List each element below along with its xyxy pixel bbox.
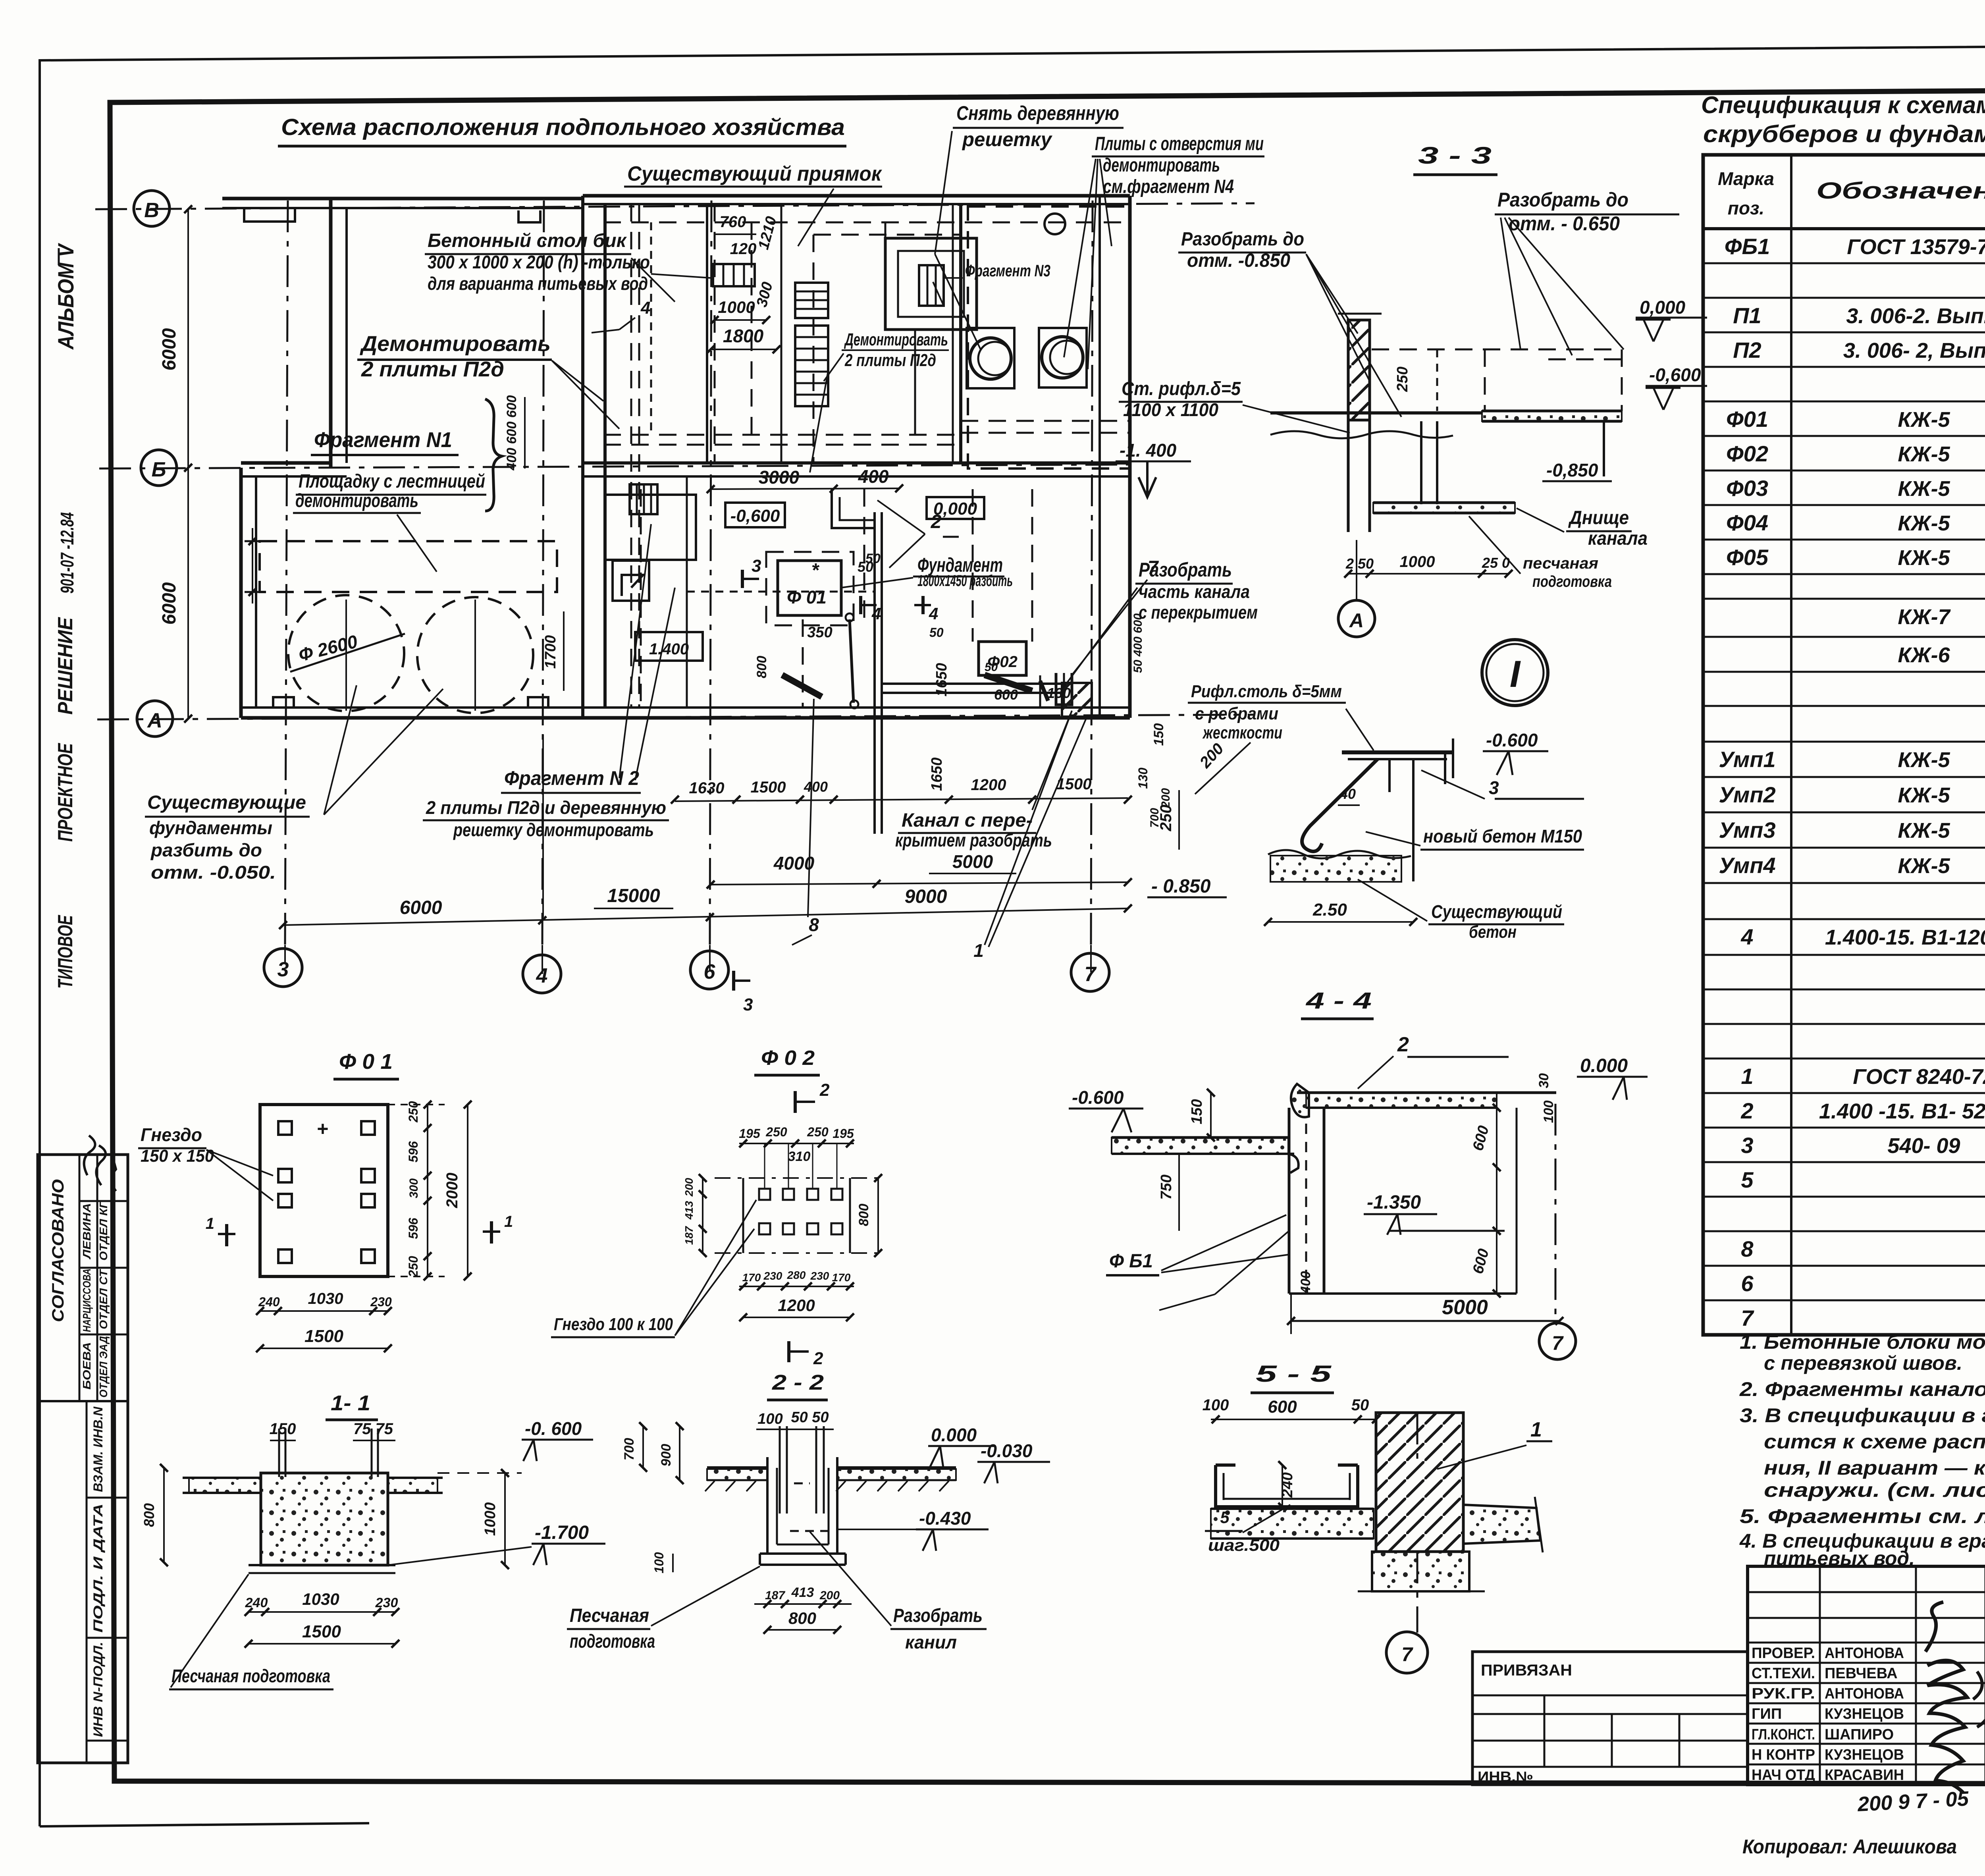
svg-text:решетку: решетку	[962, 128, 1052, 150]
dim chain 1630 1500 400 1200 1500	[675, 798, 1128, 801]
svg-text:2: 2	[819, 1080, 830, 1100]
svg-text:280: 280	[787, 1269, 806, 1281]
stair ladder приямок lower	[795, 326, 828, 406]
svg-text:800: 800	[141, 1503, 157, 1527]
detail Ф02 section mark 2 bottom	[787, 1341, 790, 1362]
svg-text:240: 240	[258, 1295, 280, 1309]
svg-text:-1.700: -1.700	[535, 1522, 589, 1543]
svg-text:демонтировать: демонтировать	[1103, 155, 1220, 176]
detail Ф02 dim 1200	[743, 1317, 850, 1318]
section 3-3 floor line left	[1270, 411, 1482, 415]
svg-text:6: 6	[704, 960, 716, 983]
svg-text:1- 1: 1- 1	[331, 1391, 370, 1415]
svg-text:350: 350	[807, 624, 832, 641]
svg-text:-0,850: -0,850	[1546, 460, 1598, 480]
svg-text:1030: 1030	[308, 1290, 343, 1307]
svg-text:канил: канил	[905, 1632, 957, 1652]
svg-text:П2: П2	[1733, 337, 1761, 362]
svg-text:187: 187	[683, 1226, 695, 1245]
svg-text:2.50: 2.50	[1312, 900, 1347, 920]
spec table outer grid	[1703, 155, 1985, 1335]
section 3-3 hatched pier	[1348, 320, 1370, 420]
dim Ф2600 diagonal	[290, 634, 405, 672]
svg-text:150: 150	[270, 1420, 296, 1438]
svg-text:Бетонный стол бик: Бетонный стол бик	[428, 230, 627, 251]
svg-text:4: 4	[536, 964, 548, 987]
svg-text:4: 4	[929, 604, 938, 623]
detail Ф02 top dims 195 250 250 195	[739, 1143, 854, 1144]
svg-text:413: 413	[791, 1585, 814, 1600]
фундамент Ф01 plan box	[778, 561, 841, 615]
svg-text:сится к схеме расположения: сится к схеме расположения скрубберов вн…	[1764, 1431, 1985, 1453]
svg-text:Б: Б	[152, 458, 166, 481]
svg-text:2 - 2: 2 - 2	[772, 1371, 824, 1394]
svg-text:195: 195	[739, 1126, 761, 1141]
svg-text:-0. 600: -0. 600	[525, 1418, 582, 1439]
svg-text:Днище: Днище	[1568, 507, 1629, 528]
svg-text:1: 1	[1741, 1064, 1753, 1089]
svg-text:Песчаная: Песчаная	[570, 1605, 649, 1626]
svg-text:230: 230	[810, 1270, 829, 1282]
title block signatures scribble	[1925, 1602, 1967, 1793]
section 3-3 canal walls	[1420, 421, 1422, 504]
detail I new concrete boundary	[1268, 850, 1411, 858]
svg-text:1650: 1650	[929, 758, 945, 791]
svg-text:50: 50	[929, 625, 944, 640]
svg-text:3: 3	[1489, 777, 1499, 798]
svg-text:100: 100	[652, 1552, 666, 1573]
section 3-3 bottom dims 250 1000 250	[1348, 573, 1509, 575]
svg-text:700: 700	[622, 1438, 637, 1461]
svg-text:Канал с пере-: Канал с пере-	[902, 810, 1033, 831]
pipe riser symbol near Ф01	[850, 619, 854, 703]
svg-text:-0.600: -0.600	[1072, 1087, 1124, 1108]
svg-text:Демонтировать: Демонтировать	[844, 330, 948, 349]
svg-text:Гнездо 100 к 100: Гнездо 100 к 100	[554, 1315, 673, 1334]
section 5-5 axis to bubble 7	[1416, 1552, 1418, 1633]
svg-text:3. 006-2. Вып.II: 3. 006-2. Вып.II	[1846, 304, 1985, 328]
drain circle приямок	[1045, 214, 1065, 234]
svg-text:Снять деревянную: Снять деревянную	[956, 102, 1119, 124]
section mark 3 lower	[732, 971, 735, 991]
svg-text:1.400-15. В1-120-24: 1.400-15. В1-120-24	[1825, 925, 1985, 949]
svg-text:КЖ-5: КЖ-5	[1898, 819, 1950, 843]
section 1-1 right floor slab	[388, 1478, 437, 1493]
partition x2050 приямок dashed	[813, 235, 815, 463]
svg-text:Н КОНТР: Н КОНТР	[1752, 1747, 1815, 1763]
svg-text:Копировал: Алешикова: Копировал: Алешикова	[1742, 1836, 1957, 1858]
svg-text:1000: 1000	[1400, 553, 1435, 571]
svg-text:КЖ-5: КЖ-5	[1898, 477, 1950, 501]
axis line В	[95, 203, 1255, 209]
svg-text:КЖ-5: КЖ-5	[1898, 783, 1950, 807]
svg-text:4: 4	[1740, 924, 1753, 949]
svg-text:100: 100	[1203, 1396, 1229, 1414]
svg-text:1500: 1500	[751, 779, 786, 796]
svg-text:4: 4	[871, 604, 881, 623]
svg-text:БОЕВА: БОЕВА	[81, 1342, 93, 1390]
svg-text:-0.430: -0.430	[919, 1508, 971, 1529]
svg-text:150: 150	[1151, 723, 1166, 746]
thick pipe stub 8	[782, 675, 822, 697]
svg-text:АЛЬБОМ V: АЛЬБОМ V	[53, 243, 78, 350]
svg-text:0,000: 0,000	[1640, 297, 1686, 318]
svg-text:6000: 6000	[159, 328, 180, 370]
svg-text:130: 130	[1136, 767, 1150, 789]
svg-text:Плиты с отверстия ми: Плиты с отверстия ми	[1095, 133, 1264, 154]
ladder grate mid room x1586	[630, 484, 657, 514]
svg-text:-1.350: -1.350	[1367, 1192, 1421, 1213]
svg-text:5000: 5000	[952, 851, 993, 872]
section 4-4 left lip blob	[1291, 1084, 1309, 1117]
svg-text:8: 8	[1741, 1236, 1754, 1261]
svg-text:+: +	[316, 1118, 328, 1140]
svg-text:200: 200	[819, 1589, 840, 1602]
svg-text:7: 7	[1085, 963, 1097, 986]
svg-text:5: 5	[1220, 1508, 1230, 1527]
curly brace фрагмент N1	[485, 399, 502, 511]
detail Ф01 right dim chain	[427, 1105, 428, 1276]
svg-text:Обозначение: Обозначение	[1816, 178, 1985, 204]
svg-text:РЕШЕНИЕ: РЕШЕНИЕ	[54, 617, 77, 715]
svg-text:2 50: 2 50	[1345, 555, 1374, 572]
svg-text:фундаменты: фундаменты	[149, 817, 272, 838]
svg-text:подготовка: подготовка	[1532, 573, 1612, 590]
axis bubble 4	[523, 955, 561, 993]
svg-text:*: *	[811, 560, 820, 581]
section 2-2 ground hatching	[705, 1481, 715, 1491]
svg-text:1630: 1630	[689, 779, 725, 797]
svg-text:200: 200	[683, 1178, 695, 1197]
svg-text:1: 1	[973, 940, 984, 961]
svg-text:см.фрагмент N4: см.фрагмент N4	[1103, 176, 1234, 197]
axis line 6	[710, 201, 711, 945]
svg-text:600: 600	[994, 686, 1018, 703]
svg-text:2: 2	[1397, 1033, 1409, 1056]
dashed verticals near Ф02	[802, 619, 804, 707]
svg-text:187: 187	[765, 1589, 785, 1602]
svg-text:400: 400	[804, 779, 828, 795]
detail Ф01 section marks 1-1	[225, 1224, 228, 1246]
section 2-2 trench bottom slab	[760, 1552, 846, 1555]
svg-text:1000: 1000	[482, 1502, 499, 1536]
svg-text:7: 7	[1741, 1305, 1754, 1330]
svg-text:-0,600: -0,600	[730, 506, 780, 526]
svg-text:800: 800	[754, 656, 769, 679]
title block staff table	[1748, 1566, 1985, 1785]
building left wall upper	[329, 199, 333, 468]
svg-text:Ф Б1: Ф Б1	[1109, 1251, 1153, 1272]
svg-text:ПРОЕКТНОЕ: ПРОЕКТНОЕ	[54, 743, 77, 842]
svg-text:ФБ1: ФБ1	[1725, 234, 1770, 259]
detail Ф01 dim 1500	[260, 1348, 388, 1349]
svg-text:Умп1: Умп1	[1719, 747, 1775, 772]
svg-text:6000: 6000	[159, 582, 180, 625]
section 5-5 footing speckled	[1372, 1552, 1469, 1591]
detail Ф02 section mark 2 top	[794, 1091, 797, 1113]
svg-text:Существующий приямок: Существующий приямок	[627, 162, 883, 185]
svg-text:240: 240	[245, 1595, 268, 1610]
existing tank dashed circle 1	[288, 595, 404, 711]
section 2-2 dim 800	[767, 1629, 837, 1631]
axis bubble 7	[1071, 953, 1109, 991]
svg-text:с ребрами: с ребрами	[1195, 704, 1278, 723]
svg-text:КЖ-7: КЖ-7	[1898, 605, 1951, 629]
svg-text:Ф04: Ф04	[1726, 510, 1768, 535]
svg-text:250: 250	[406, 1256, 420, 1278]
svg-text:П1: П1	[1733, 303, 1761, 328]
svg-text:300: 300	[407, 1178, 420, 1198]
partition x1781 приямок	[706, 204, 708, 463]
svg-text:КЖ-5: КЖ-5	[1898, 546, 1950, 570]
section 1-1 left floor slab	[189, 1478, 261, 1493]
building bottom wall А	[241, 706, 1130, 709]
svg-text:В: В	[144, 199, 159, 222]
svg-text:50: 50	[865, 551, 881, 566]
svg-text:6: 6	[1741, 1271, 1754, 1296]
detail Ф01 bottom dims 240 1030 230	[260, 1310, 388, 1312]
svg-text:413: 413	[683, 1201, 695, 1220]
svg-text:1: 1	[206, 1215, 214, 1232]
svg-text:1000: 1000	[718, 298, 755, 316]
svg-text:1.400 -15. В1- 520-03: 1.400 -15. В1- 520-03	[1819, 1099, 1985, 1123]
hatched square bottom right of plan	[1062, 683, 1092, 717]
svg-text:ШАПИРО: ШАПИРО	[1825, 1726, 1894, 1743]
svg-text:Ф 01: Ф 01	[787, 587, 827, 607]
svg-text:-0.030: -0.030	[981, 1440, 1033, 1461]
svg-text:разбить до: разбить до	[150, 840, 262, 860]
svg-text:КЖ-5: КЖ-5	[1898, 748, 1950, 772]
room below Б: -0.600 floor box label	[725, 503, 785, 527]
svg-text:КЖ-5: КЖ-5	[1898, 442, 1950, 466]
svg-text:2. Фрагменты каналов и их: 2. Фрагменты каналов и их перекрытий см.…	[1739, 1378, 1985, 1400]
svg-text:скрубберов и фундаментов под: скрубберов и фундаментов под оборудовани…	[1703, 121, 1985, 147]
svg-text:Ф02: Ф02	[1726, 441, 1768, 466]
section 3-3 ground wavy line	[1270, 431, 1453, 438]
section 1-1 dim 800 rotated	[163, 1468, 165, 1562]
svg-text:3000: 3000	[759, 467, 800, 488]
svg-text:ГОСТ 8240-72: ГОСТ 8240-72	[1853, 1065, 1985, 1089]
svg-text:ГОСТ 13579-78: ГОСТ 13579-78	[1847, 235, 1985, 259]
axis line 7	[1091, 201, 1093, 945]
svg-text:9000: 9000	[905, 886, 947, 907]
building left wall lower	[239, 468, 243, 718]
svg-text:Разобрать до: Разобрать до	[1497, 189, 1628, 211]
бетонный столбик bars block	[713, 264, 755, 286]
svg-text:760: 760	[720, 213, 746, 231]
svg-text:310: 310	[788, 1149, 811, 1164]
svg-text:50: 50	[985, 661, 998, 674]
section 4-4 leader to fragment	[1215, 1231, 1289, 1294]
section 5-5 hatched wall	[1376, 1413, 1463, 1552]
section 4-4 right dim chain 600 600	[1496, 1108, 1497, 1294]
svg-text:1200: 1200	[971, 776, 1006, 794]
svg-text:А: А	[146, 709, 162, 732]
svg-text:Разобрать: Разобрать	[1139, 559, 1232, 581]
svg-text:1650: 1650	[933, 663, 950, 697]
svg-text:130: 130	[1047, 685, 1071, 701]
svg-text:400 600 600: 400 600 600	[504, 395, 519, 470]
svg-text:КУЗНЕЦОВ: КУЗНЕЦОВ	[1825, 1706, 1904, 1722]
svg-text:КЖ-5: КЖ-5	[1898, 854, 1950, 878]
detail I circle	[1482, 640, 1548, 706]
svg-text:ИНВ.№: ИНВ.№	[1478, 1768, 1533, 1785]
section 3-3 dashed slab outline	[1372, 349, 1622, 351]
section 3-3 slab with speckles	[1482, 411, 1622, 421]
svg-text:3. В спецификации в графе: 3. В спецификации в графе „Количество.” …	[1740, 1404, 1985, 1427]
фундамент Ф02 plan box	[979, 642, 1026, 675]
stair ladder приямок upper	[795, 283, 828, 318]
svg-text:100: 100	[757, 1411, 782, 1427]
building right wall	[1098, 196, 1101, 718]
svg-text:1200: 1200	[778, 1296, 815, 1315]
svg-text:400: 400	[858, 466, 889, 487]
left stamp signatures	[84, 1136, 95, 1175]
dashed lines inside приямок	[603, 222, 1130, 224]
svg-text:Умп4: Умп4	[1719, 853, 1775, 878]
svg-text:596: 596	[406, 1218, 420, 1239]
dim chain 4000 5000	[711, 882, 1128, 885]
svg-text:КУЗНЕЦОВ: КУЗНЕЦОВ	[1825, 1747, 1904, 1763]
thick pipe stub near Ф02	[985, 675, 1032, 691]
svg-text:снаружи. (см. лист К Ж -4.): снаружи. (см. лист К Ж -4.)	[1764, 1479, 1985, 1501]
svg-text:100: 100	[1541, 1101, 1556, 1123]
svg-text:1: 1	[504, 1213, 513, 1230]
svg-text:75 75: 75 75	[353, 1420, 393, 1438]
interior wall on axis Б right half	[583, 461, 1130, 465]
building top wall left part	[222, 197, 583, 201]
section mark 3 upper	[741, 570, 744, 588]
svg-text:Схема расположения подпольного: Схема расположения подпольного хозяйства	[281, 114, 845, 140]
svg-text:3 - 3: 3 - 3	[1418, 142, 1492, 169]
section 1-1 pit concrete speckled	[261, 1473, 388, 1565]
svg-text:540- 09: 540- 09	[1887, 1134, 1960, 1158]
svg-text:195: 195	[833, 1126, 854, 1141]
interior wall vertical x1468	[581, 196, 584, 718]
svg-text:демонтировать: демонтировать	[295, 490, 418, 511]
svg-text:1030: 1030	[302, 1590, 339, 1608]
svg-text:ЛЕВИНА: ЛЕВИНА	[81, 1203, 93, 1259]
svg-text:Разобрать до: Разобрать до	[1181, 229, 1304, 250]
svg-text:Разобрать: Разобрать	[893, 1605, 983, 1626]
section 5-5 channel profile	[1216, 1463, 1235, 1467]
svg-text:Фрагмент N 2: Фрагмент N 2	[504, 767, 639, 789]
axis bubble А	[137, 701, 173, 737]
svg-text:Ф 0 2: Ф 0 2	[761, 1047, 815, 1070]
room below Б: 0.000 floor box label	[927, 497, 984, 519]
axis bubble 6	[690, 951, 728, 989]
interior wall room divider x2420	[959, 204, 962, 463]
pipe fitting symbol right	[1056, 673, 1072, 705]
section 4-4 wall verticals	[1288, 1108, 1291, 1294]
svg-text:решетку демонтировать: решетку демонтировать	[453, 819, 654, 840]
section 2-2 dims left rotated 700 900 100	[642, 1426, 644, 1468]
svg-text:1800: 1800	[723, 326, 764, 346]
svg-text:новый бетон М150: новый бетон М150	[1423, 826, 1582, 846]
svg-text:ГЛ.КОНСТ.: ГЛ.КОНСТ.	[1752, 1726, 1815, 1743]
svg-text:с перевязкой швов.: с перевязкой швов.	[1764, 1352, 1962, 1374]
axis line 3	[285, 201, 288, 945]
section 2-2 rebar pairs	[779, 1426, 781, 1514]
площадка dim ticks	[245, 540, 260, 542]
svg-text:Фрагмент N3: Фрагмент N3	[965, 261, 1050, 280]
svg-text:8: 8	[809, 914, 819, 935]
bent plate symbol in room below Б	[605, 495, 696, 560]
detail Ф01 dim 2000	[467, 1105, 468, 1276]
svg-text:Существующие: Существующие	[147, 792, 306, 813]
svg-text:230: 230	[763, 1270, 782, 1282]
svg-text:ВЗАМ. ИНВ.N: ВЗАМ. ИНВ.N	[91, 1406, 105, 1492]
svg-text:Ф05: Ф05	[1726, 545, 1769, 570]
svg-text:170: 170	[742, 1271, 761, 1284]
svg-text:РУК.ГР.: РУК.ГР.	[1752, 1685, 1815, 1702]
existing tank dashed circle 2	[417, 597, 533, 713]
svg-text:КРАСАВИН: КРАСАВИН	[1825, 1767, 1904, 1783]
svg-text:600: 600	[1268, 1397, 1297, 1417]
axis line 4	[542, 201, 544, 945]
svg-text:Песчаная подготовка: Песчаная подготовка	[172, 1666, 330, 1686]
square pit in приямок (снять решетку)	[885, 238, 977, 330]
detail Ф02 socket squares	[759, 1189, 770, 1200]
svg-text:КЖ-6: КЖ-6	[1898, 643, 1950, 667]
section 1-1 dim 1500	[249, 1643, 395, 1645]
axis bubble 3	[264, 949, 302, 987]
canal step near 0.000	[832, 489, 875, 528]
step wall on axis Б left	[241, 461, 331, 465]
svg-text:1500: 1500	[304, 1327, 343, 1346]
svg-text:0.000: 0.000	[931, 1425, 977, 1445]
svg-text:Гнездо: Гнездо	[141, 1124, 202, 1145]
vertical dim line left 6000+6000	[187, 209, 189, 719]
svg-text:шаг.500: шаг.500	[1208, 1536, 1280, 1554]
bottom dim chain 6000 15000 9000	[283, 908, 1128, 925]
svg-text:ТИПОВОЕ: ТИПОВОЕ	[54, 915, 77, 989]
section 1-1 rebar stubs	[278, 1429, 280, 1477]
svg-text:5 - 5: 5 - 5	[1256, 1361, 1332, 1387]
svg-text:I: I	[1510, 653, 1521, 695]
rooms below Б dashed lines	[640, 489, 642, 707]
svg-text:0.000: 0.000	[1580, 1055, 1628, 1076]
section 4-4 left floor slab speckled	[1112, 1138, 1288, 1153]
svg-text:800: 800	[856, 1204, 871, 1226]
svg-text:СОГЛАСОВАНО: СОГЛАСОВАНО	[48, 1179, 67, 1322]
dashed demolition rect площадка	[260, 541, 557, 592]
svg-text:250: 250	[765, 1125, 787, 1139]
svg-text:Умп2: Умп2	[1719, 782, 1775, 807]
svg-text:6000: 6000	[400, 897, 442, 918]
svg-text:1800х1450 разбить: 1800х1450 разбить	[917, 572, 1013, 590]
svg-text:с перекрытием: с перекрытием	[1139, 602, 1258, 623]
привязан table	[1472, 1652, 1748, 1785]
axis bubble В	[134, 191, 170, 226]
frag3 lower dashed band	[961, 420, 1130, 422]
svg-text:КЖ-5: КЖ-5	[1898, 511, 1950, 535]
svg-text:5: 5	[1741, 1167, 1754, 1192]
svg-text:Спецификация к схемам располож: Спецификация к схемам расположения подпо…	[1701, 92, 1985, 118]
svg-text:Демонтировать: Демонтировать	[360, 332, 551, 356]
svg-text:ПОДЛ. И ДАТА: ПОДЛ. И ДАТА	[91, 1504, 105, 1633]
svg-text:596: 596	[406, 1141, 420, 1163]
section 1-1 dim 1000 rotated	[504, 1473, 506, 1565]
svg-text:отм. - 0.650: отм. - 0.650	[1509, 212, 1620, 235]
svg-text:Фрагмент N1: Фрагмент N1	[314, 428, 452, 452]
scrubber square 2	[1039, 328, 1087, 388]
svg-text:-0.600: -0.600	[1486, 730, 1538, 750]
svg-text:3. 006- 2, Вып.II: 3. 006- 2, Вып.II	[1843, 339, 1985, 362]
svg-text:30: 30	[1536, 1073, 1551, 1088]
detail Ф02 dim 800 rotated	[877, 1178, 879, 1253]
svg-text:1.400: 1.400	[649, 640, 689, 658]
